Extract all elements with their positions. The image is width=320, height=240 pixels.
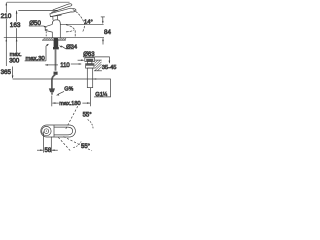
lever collar lines bbox=[52, 16, 54, 20]
aerator tick bbox=[45, 28, 47, 31]
svg-text:Ø34: Ø34 bbox=[66, 44, 78, 50]
drain flange left arrow bbox=[78, 59, 84, 61]
14 deg arc dashed bbox=[73, 10, 85, 32]
drain tail pipe G1 1/4 bbox=[87, 68, 92, 88]
svg-text:365: 365 bbox=[1, 69, 12, 76]
faucet body left edge bbox=[51, 23, 53, 24]
svg-text:G⅜: G⅜ bbox=[64, 86, 74, 92]
svg-text:max.: max. bbox=[10, 52, 23, 58]
counter bottom line bbox=[42, 39, 66, 41]
svg-text:G1¼: G1¼ bbox=[95, 92, 108, 98]
water stream dashes bbox=[45, 31, 47, 37]
hose curve bbox=[52, 75, 55, 89]
lever handle solid (down) bbox=[50, 8, 76, 17]
node: 210 dimension line bbox=[5, 2, 7, 12]
hose nut bbox=[54, 72, 58, 75]
counter hatching bbox=[43, 38, 67, 40]
deck right of drain (35-45 thick) bbox=[95, 59, 102, 61]
svg-text:84: 84 bbox=[104, 29, 111, 36]
spout (pointing left) bbox=[45, 24, 52, 32]
center dot bbox=[46, 131, 47, 132]
spout inner wall lines bbox=[54, 127, 73, 135]
capsule outline bbox=[41, 125, 76, 137]
faucet shank dark bbox=[53, 38, 59, 49]
svg-text:110: 110 bbox=[60, 63, 70, 69]
84 dimension upper arrow bbox=[101, 16, 105, 18]
svg-text:58: 58 bbox=[45, 148, 52, 154]
faucet body right edge bbox=[59, 23, 61, 37]
inner circle bbox=[44, 129, 49, 134]
svg-text:Ø63: Ø63 bbox=[83, 52, 95, 58]
hose end cone bbox=[49, 88, 55, 92]
svg-text:300: 300 bbox=[9, 59, 20, 65]
cartridge dome bbox=[52, 20, 60, 24]
365 bottom extension line continuing to G1 1/4 leader bbox=[13, 79, 111, 97]
svg-text:163: 163 bbox=[10, 22, 21, 29]
counter top line bbox=[4, 37, 104, 39]
svg-text:35-45: 35-45 bbox=[102, 65, 117, 71]
lever handle raised (phantom) bbox=[51, 4, 72, 13]
drain flange bbox=[85, 58, 95, 62]
svg-text:55°: 55° bbox=[83, 113, 93, 119]
angle arc lower bbox=[73, 142, 81, 148]
swivel dashes upper bbox=[66, 105, 79, 129]
drain nut bbox=[86, 64, 94, 68]
base circle bbox=[42, 126, 51, 135]
swivel dashes lower left bbox=[58, 137, 71, 151]
58 dimension bbox=[43, 132, 45, 153]
drain neck bbox=[88, 61, 92, 63]
phantom spout (swivelled) dashed bbox=[66, 25, 75, 38]
svg-text:55°: 55° bbox=[81, 144, 91, 150]
84 dimension lower arrow bbox=[102, 38, 104, 44]
threaded rod bbox=[55, 49, 57, 70]
swivel dashes lower right bbox=[64, 137, 93, 151]
junction line bbox=[53, 125, 55, 137]
84 extension line (spout height) also underlines 14deg bbox=[61, 23, 104, 25]
svg-text:210: 210 bbox=[1, 13, 12, 20]
label 58 bbox=[44, 148, 51, 153]
365 dimension line with down arrow bbox=[12, 67, 14, 78]
angle arc upper bbox=[88, 120, 94, 129]
wire: 163 extension line bbox=[18, 9, 58, 11]
wire: 210 top extension line bbox=[7, 1, 70, 3]
max.180 dimension bbox=[51, 96, 53, 107]
node: 163 dimension line bbox=[16, 11, 18, 22]
